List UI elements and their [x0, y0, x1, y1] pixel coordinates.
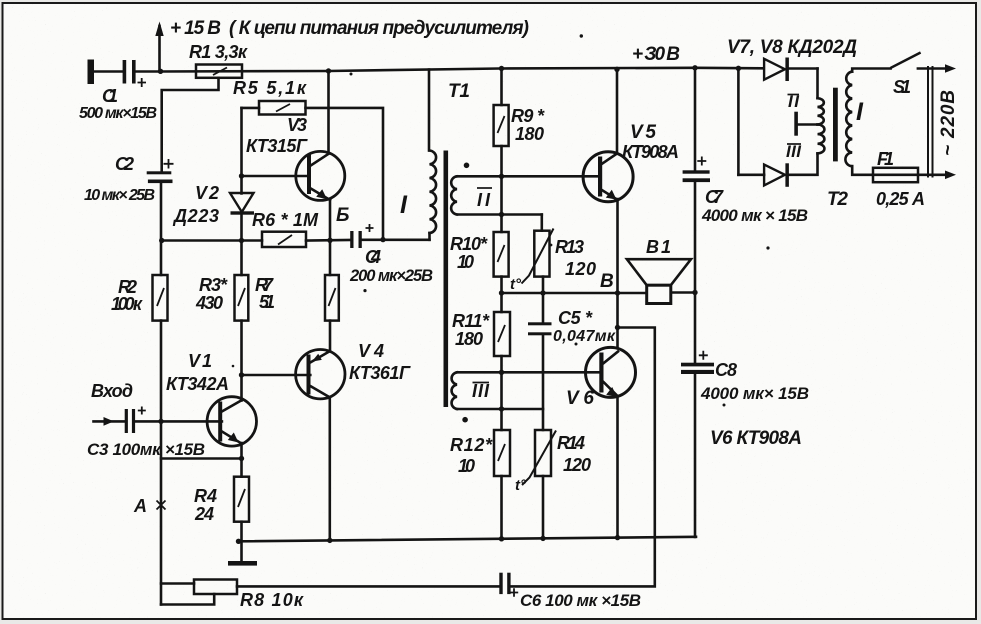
- svg-text:200 мк×25В: 200 мк×25В: [349, 267, 433, 285]
- svg-text:180: 180: [455, 329, 483, 349]
- svg-text:А: А: [133, 496, 147, 516]
- svg-text:S1: S1: [893, 77, 911, 97]
- svg-text:I: I: [400, 191, 408, 219]
- svg-text:R14: R14: [557, 433, 585, 453]
- svg-text:С8: С8: [715, 360, 737, 380]
- svg-text:430: 430: [195, 293, 223, 313]
- svg-text:С5 *: С5 *: [558, 308, 593, 328]
- svg-text:10: 10: [458, 456, 475, 476]
- svg-text:+ 15 В: + 15 В: [170, 18, 221, 39]
- svg-text:R3*: R3*: [199, 275, 228, 295]
- svg-text:R6 * 1М: R6 * 1М: [252, 210, 319, 230]
- svg-text:В1: В1: [646, 237, 671, 257]
- svg-text:10 мк× 25В: 10 мк× 25В: [84, 187, 155, 204]
- svg-text:500 мк×15В: 500 мк×15В: [79, 105, 157, 122]
- svg-text:24: 24: [194, 504, 214, 524]
- svg-text:R11*: R11*: [452, 311, 490, 331]
- svg-text:С1: С1: [102, 86, 118, 106]
- svg-text:Т1: Т1: [448, 81, 470, 102]
- svg-text:V1: V1: [188, 351, 212, 371]
- svg-text:4000 мк× 15В: 4000 мк× 15В: [700, 384, 809, 403]
- svg-text:R4: R4: [194, 486, 217, 506]
- svg-text:С3 100мк ×15В: С3 100мк ×15В: [87, 440, 205, 459]
- svg-text:III: III: [786, 142, 802, 161]
- svg-text:R10*: R10*: [450, 234, 488, 254]
- svg-text:R8 10к: R8 10к: [240, 590, 304, 610]
- svg-text:II: II: [788, 92, 800, 111]
- svg-text:Т2: Т2: [827, 189, 848, 210]
- svg-text:t°: t°: [510, 276, 522, 293]
- svg-text:III: III: [472, 381, 490, 401]
- svg-text:t°: t°: [515, 477, 527, 494]
- svg-text:КТ361Г: КТ361Г: [349, 363, 411, 383]
- svg-text:С6 100 мк ×15В: С6 100 мк ×15В: [520, 591, 641, 610]
- svg-text:R12*: R12*: [450, 435, 493, 455]
- svg-text:4000 мк × 15В: 4000 мк × 15В: [701, 206, 808, 225]
- svg-text:R1 3,3к: R1 3,3к: [189, 42, 248, 62]
- svg-text:120: 120: [563, 455, 591, 475]
- svg-text:51: 51: [259, 292, 275, 312]
- svg-text:0,25 А: 0,25 А: [876, 189, 925, 209]
- svg-text:С4: С4: [365, 247, 381, 267]
- svg-text:~ 220В: ~ 220В: [938, 90, 959, 156]
- svg-text:10: 10: [457, 252, 474, 272]
- svg-text:КТ315Г: КТ315Г: [246, 136, 308, 156]
- svg-text:Б: Б: [336, 205, 349, 226]
- svg-text:100 к: 100 к: [111, 294, 143, 314]
- svg-text:С2: С2: [115, 154, 134, 174]
- svg-text:V3: V3: [287, 115, 307, 135]
- svg-text:120: 120: [565, 259, 596, 279]
- svg-text:Д223: Д223: [172, 206, 219, 226]
- svg-text:0,047мк: 0,047мк: [553, 328, 616, 345]
- svg-text:R13: R13: [555, 237, 584, 257]
- svg-text:V2: V2: [195, 183, 219, 203]
- svg-text:I: I: [856, 98, 864, 126]
- svg-text:( К цепи питания предусилите: ( К цепи питания предусилителя): [229, 18, 529, 39]
- svg-text:F1: F1: [877, 149, 894, 169]
- svg-text:V7, V8 КД202Д: V7, V8 КД202Д: [727, 37, 857, 58]
- svg-text:+ З0 В: + З0 В: [632, 44, 680, 65]
- svg-text:V6 КТ908А: V6 КТ908А: [710, 428, 802, 449]
- svg-text:180: 180: [515, 124, 544, 144]
- svg-text:В: В: [600, 271, 614, 292]
- svg-text:R9 *: R9 *: [511, 106, 545, 126]
- svg-text:КТ908А: КТ908А: [622, 142, 679, 162]
- svg-text:КТ342А: КТ342А: [166, 374, 229, 394]
- svg-text:С7: С7: [705, 187, 724, 207]
- svg-text:Вход: Вход: [91, 381, 133, 401]
